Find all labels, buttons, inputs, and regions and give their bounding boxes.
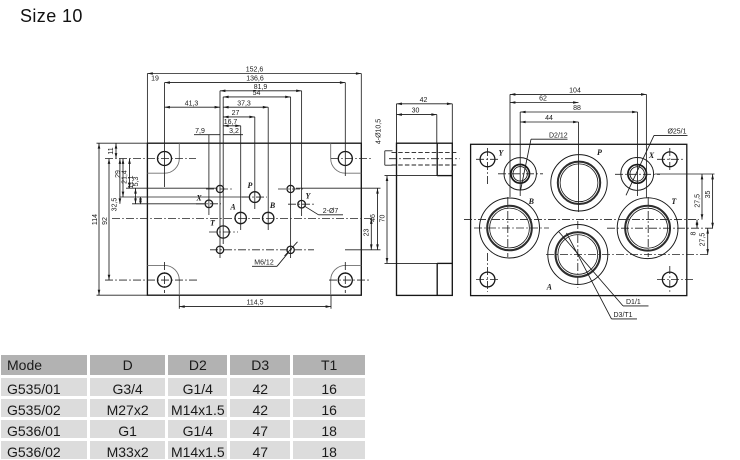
dimension 3,2 bbox=[223, 128, 243, 135]
extension row step top bbox=[385, 175, 438, 177]
svg-text:16,7: 16,7 bbox=[224, 119, 238, 126]
extension col 104 right bbox=[645, 94, 647, 198]
centerline hole7 right horizontal bbox=[278, 188, 303, 190]
left view plate outline bbox=[147, 143, 361, 295]
dimension 35 vertical bbox=[705, 174, 713, 228]
port P front bbox=[249, 192, 260, 203]
port T back thread bbox=[625, 206, 670, 251]
svg-text:5,3: 5,3 bbox=[133, 177, 140, 187]
extension col B bbox=[267, 107, 269, 230]
svg-text:88: 88 bbox=[573, 105, 581, 112]
extension col 114.5 right bbox=[330, 295, 332, 309]
extension col hole7-M6 left bbox=[219, 91, 221, 258]
extension row 114 top bbox=[97, 142, 148, 144]
dimension 136,6 bbox=[165, 76, 346, 83]
svg-text:B: B bbox=[528, 197, 535, 206]
svg-text:A: A bbox=[546, 282, 553, 291]
centerline bottom-right hole vertical bbox=[344, 262, 346, 293]
back corner hole top-right bbox=[662, 152, 677, 167]
dimension 54 bbox=[223, 90, 290, 97]
dimension 8 vertical bbox=[691, 220, 698, 236]
centerline B back vertical bbox=[507, 197, 509, 257]
back corner hole bottom-left bbox=[480, 272, 495, 287]
centerline A back horizontal bbox=[546, 254, 710, 256]
centerline corner TR back bbox=[657, 158, 684, 160]
extension col 104 left bbox=[509, 94, 511, 197]
corner relief bottom-left bbox=[147, 265, 179, 295]
dimension 11,1 vertical bbox=[128, 175, 136, 203]
svg-text:11: 11 bbox=[108, 147, 115, 154]
dimension 88 bbox=[520, 105, 637, 112]
svg-text:P: P bbox=[597, 148, 602, 157]
port A back thread bbox=[556, 232, 601, 277]
port B back outer bbox=[480, 198, 540, 258]
centerline P horizontal bbox=[242, 196, 267, 198]
svg-text:136,6: 136,6 bbox=[246, 76, 264, 83]
extension col right holes bbox=[344, 83, 346, 176]
extension row step bottom bbox=[385, 262, 438, 264]
extension row X back right bbox=[655, 173, 715, 175]
svg-text:44: 44 bbox=[545, 115, 553, 122]
extension col side step bbox=[436, 115, 438, 144]
svg-text:19: 19 bbox=[151, 76, 159, 83]
centerline A back vertical bbox=[577, 221, 579, 288]
centerline bottom holes left bbox=[105, 279, 197, 281]
centerline M6 row bbox=[210, 249, 314, 251]
centerline corner TL back bbox=[476, 158, 500, 160]
centerline T back horizontal bbox=[607, 227, 715, 229]
hidden hole line upper bbox=[392, 151, 458, 153]
svg-text:27,5: 27,5 bbox=[694, 194, 701, 208]
centerline X back horizontal bbox=[615, 173, 660, 175]
back mid centerline bbox=[464, 219, 699, 221]
dimension 81,9 bbox=[220, 84, 302, 91]
svg-text:Ø25/1: Ø25/1 bbox=[667, 128, 686, 135]
extension col side right bbox=[451, 104, 453, 143]
port hole 7dia right bbox=[287, 185, 294, 192]
svg-text:92: 92 bbox=[102, 217, 109, 225]
centerline T horizontal bbox=[209, 231, 238, 233]
svg-text:62: 62 bbox=[539, 96, 547, 103]
extension col P bbox=[254, 117, 256, 209]
corner relief top-left bbox=[147, 143, 179, 173]
corner relief top-right bbox=[331, 143, 362, 173]
svg-text:T: T bbox=[671, 197, 677, 206]
port P back outer bbox=[551, 155, 607, 211]
port X back thread bbox=[628, 165, 647, 184]
port B back thread bbox=[487, 206, 532, 251]
centerline Y back horizontal bbox=[498, 173, 543, 175]
svg-text:27: 27 bbox=[232, 110, 240, 117]
dimension 114,5 bbox=[179, 300, 331, 307]
svg-text:A: A bbox=[229, 203, 236, 212]
label 2-Ø7 with leader bbox=[305, 206, 343, 215]
svg-text:35: 35 bbox=[705, 191, 712, 199]
extension col plate right bbox=[360, 74, 362, 144]
centerline hole7 left horizontal bbox=[206, 188, 232, 190]
dimension 32,5 vertical bbox=[112, 159, 120, 212]
svg-text:D1/1: D1/1 bbox=[626, 299, 641, 306]
extension col P back bbox=[578, 122, 580, 212]
svg-text:27,5: 27,5 bbox=[700, 233, 707, 247]
port hole 7dia left bbox=[216, 185, 223, 192]
dimension 44 bbox=[520, 115, 578, 122]
dimension 70 vertical bbox=[379, 176, 387, 264]
extension col X back bbox=[637, 112, 639, 196]
svg-text:8: 8 bbox=[691, 231, 698, 235]
svg-text:152,6: 152,6 bbox=[246, 67, 264, 74]
svg-text:104: 104 bbox=[569, 88, 581, 95]
centerline corner BL back bbox=[476, 279, 500, 281]
port B front bbox=[263, 212, 274, 223]
svg-text:X: X bbox=[648, 151, 655, 160]
hole M6 left bbox=[216, 246, 223, 253]
label O25/1 with leader bbox=[626, 128, 688, 195]
centerline T back vertical bbox=[647, 197, 649, 257]
port A back outer bbox=[548, 225, 608, 285]
dimension 29 vertical bbox=[115, 159, 123, 198]
corner relief bottom-right bbox=[331, 265, 362, 295]
mounting hole top-right bbox=[338, 152, 352, 166]
extension col side left bbox=[396, 104, 398, 143]
centerline corner BR back vertical bbox=[669, 266, 671, 292]
label D1/1 with leader bbox=[559, 232, 649, 306]
svg-text:7,9: 7,9 bbox=[195, 128, 205, 135]
svg-text:M6/12: M6/12 bbox=[254, 259, 274, 266]
dimension 46 vertical bbox=[370, 188, 378, 250]
extension col 114.5 left bbox=[178, 295, 180, 309]
back corner hole top-left bbox=[480, 152, 495, 167]
centerline A-B row bbox=[112, 218, 374, 220]
side view step top vertical bbox=[436, 143, 438, 175]
svg-text:B: B bbox=[269, 201, 276, 210]
svg-text:3,2: 3,2 bbox=[229, 128, 239, 135]
svg-text:54: 54 bbox=[253, 90, 261, 97]
side view centerline bbox=[389, 158, 460, 160]
hole M6 right bbox=[287, 246, 294, 253]
port Y front bbox=[298, 200, 306, 208]
centerline corner TR back vertical bbox=[669, 148, 671, 172]
side view outline bbox=[397, 143, 453, 295]
dimension 42 bbox=[397, 97, 453, 104]
centerline top holes right bbox=[331, 158, 371, 160]
extension row 46 right bbox=[296, 187, 381, 189]
svg-text:Y: Y bbox=[499, 149, 505, 158]
dimension 7,9 bbox=[194, 128, 220, 135]
extension col left holes bbox=[164, 83, 166, 187]
port X back outer bbox=[621, 158, 654, 191]
svg-text:32,5: 32,5 bbox=[112, 198, 119, 212]
port T front bbox=[217, 226, 229, 238]
port X front bbox=[205, 200, 213, 208]
hidden hole line lower bbox=[392, 164, 458, 166]
svg-text:2-Ø7: 2-Ø7 bbox=[323, 208, 339, 215]
label D2/12 with leader bbox=[521, 132, 568, 190]
centerline Y horizontal bbox=[288, 203, 314, 205]
dimension 11 vertical bbox=[108, 143, 116, 158]
port Y back outer bbox=[504, 158, 536, 190]
mounting hole top-left bbox=[158, 152, 172, 166]
svg-text:70: 70 bbox=[379, 215, 386, 223]
extension col A bbox=[240, 126, 242, 230]
dimension 92 vertical bbox=[102, 159, 109, 281]
dimension 41,3 bbox=[165, 100, 221, 107]
svg-text:T: T bbox=[210, 219, 216, 228]
dimension 16,7 bbox=[223, 119, 241, 126]
leader 4-O10,5 bracket bbox=[385, 151, 393, 165]
centerline corner TL back vertical bbox=[487, 148, 489, 185]
centerline top holes left bbox=[105, 158, 196, 160]
port Y back thread bbox=[511, 165, 530, 184]
svg-text:23: 23 bbox=[363, 229, 370, 237]
centerline B back horizontal bbox=[474, 227, 549, 229]
back view plate outline bbox=[471, 144, 687, 295]
svg-text:114,5: 114,5 bbox=[247, 300, 264, 307]
centerline X horizontal bbox=[196, 203, 221, 205]
svg-text:D3/T1: D3/T1 bbox=[614, 312, 633, 319]
dimension 27,5 top vertical bbox=[694, 174, 702, 220]
extension row hole7 left bbox=[126, 187, 216, 189]
svg-text:42: 42 bbox=[420, 97, 428, 104]
svg-text:114: 114 bbox=[92, 214, 99, 225]
extension col Y back bbox=[519, 112, 521, 196]
centerline bottom-left hole vertical bbox=[164, 262, 166, 293]
dimension 37,3 bbox=[223, 100, 268, 107]
port A front bbox=[235, 212, 246, 223]
dimension 27,5 bottom vertical bbox=[700, 228, 708, 254]
dimension 21,4 vertical bbox=[122, 159, 130, 189]
side view step top horizontal bbox=[437, 175, 452, 177]
centerline corner BL back vertical bbox=[487, 253, 489, 292]
dimension 27 bbox=[223, 110, 255, 117]
dimension 23 vertical bbox=[363, 219, 371, 250]
back corner hole bottom-right bbox=[662, 272, 677, 287]
port T back outer bbox=[617, 198, 678, 259]
dimension 30 bbox=[397, 108, 437, 115]
svg-text:41,3: 41,3 bbox=[185, 100, 199, 107]
extension col Y bbox=[301, 91, 303, 216]
label D3/T1 with leader bbox=[567, 233, 638, 319]
svg-text:D2/12: D2/12 bbox=[549, 132, 568, 139]
centerline corner BR back bbox=[657, 279, 694, 281]
label M6/12 with leader bbox=[252, 242, 298, 266]
extension row X left bbox=[132, 203, 205, 205]
dimension 114 vertical bbox=[92, 143, 99, 295]
svg-text:X: X bbox=[195, 193, 202, 202]
dimension 5,3 vertical bbox=[133, 177, 140, 204]
svg-text:4-Ø10,5: 4-Ø10,5 bbox=[376, 119, 383, 144]
port P back thread bbox=[558, 162, 600, 204]
svg-text:30: 30 bbox=[412, 108, 420, 115]
centerline bottom holes right bbox=[329, 279, 370, 281]
mounting hole bottom-left bbox=[158, 273, 172, 287]
extension row M6 right bbox=[345, 249, 381, 251]
extension col X bbox=[208, 135, 210, 215]
extension col plate left bbox=[146, 74, 148, 144]
extension row 114 bottom bbox=[97, 294, 148, 296]
extension col T bbox=[222, 97, 224, 244]
svg-text:P: P bbox=[248, 181, 253, 190]
side view step bottom horizontal bbox=[437, 262, 452, 264]
mounting hole bottom-right bbox=[338, 273, 352, 287]
svg-text:46: 46 bbox=[370, 214, 377, 222]
svg-text:37,3: 37,3 bbox=[237, 100, 251, 107]
extension row P left bbox=[120, 196, 250, 198]
dimension 62 bbox=[510, 96, 579, 103]
svg-text:Y: Y bbox=[306, 192, 312, 201]
dimension 152,6 bbox=[147, 67, 361, 74]
extension col hole7-M6 right bbox=[290, 97, 292, 258]
side view step bottom vertical bbox=[436, 263, 438, 295]
dimension 104 bbox=[510, 88, 646, 95]
